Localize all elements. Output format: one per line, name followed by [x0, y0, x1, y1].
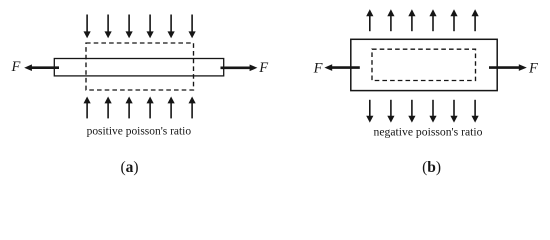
diagram (b): expansion up arrow 6 [472, 9, 479, 31]
diagram (a): compressive down arrow 4 [147, 15, 154, 39]
svg-text:(b): (b) [422, 159, 441, 176]
diagram (b): right tension force arrow [489, 64, 527, 71]
diagram (a): compressive down arrow 2 [105, 15, 112, 39]
svg-text:F: F [11, 59, 21, 75]
diagram (a): compressive down arrow 5 [168, 15, 175, 39]
diagram (b): expansion up arrow 1 [366, 9, 373, 31]
diagram (a): compressive down arrow 6 [189, 15, 196, 39]
diagram (a): right tension force arrow [221, 65, 258, 72]
diagram (a): compressive up arrow 1 [84, 97, 91, 119]
svg-text:F: F [528, 60, 538, 76]
diagram (b): expansion up arrow 2 [387, 9, 394, 31]
diagram (b): left tension force arrow [324, 64, 359, 71]
diagram (a): left tension force arrow [24, 64, 59, 71]
diagram (a): compressive down arrow 1 [84, 15, 91, 39]
diagram (b): expansion down arrow 5 [450, 100, 457, 123]
svg-text:F: F [258, 60, 268, 76]
svg-text:(a): (a) [120, 159, 138, 176]
svg-text:F: F [313, 60, 323, 76]
diagram (a): compressive up arrow 4 [147, 97, 154, 119]
diagram (b): expansion down arrow 4 [429, 100, 436, 123]
diagram (a): dashed deformed-region outline [86, 43, 194, 90]
diagram (a): solid material bar [54, 59, 223, 76]
diagram (b): expansion up arrow 3 [408, 9, 415, 31]
diagram (a): compressive down arrow 3 [126, 15, 133, 39]
diagram (b): expansion down arrow 1 [366, 100, 373, 123]
diagram (b): solid material box [351, 39, 497, 90]
diagram (b): expansion up arrow 5 [450, 9, 457, 31]
diagram (b): expansion down arrow 6 [472, 100, 479, 123]
diagram (b): expansion down arrow 3 [408, 100, 415, 123]
diagram (b): expansion up arrow 4 [429, 9, 436, 31]
svg-text:negative poisson's ratio: negative poisson's ratio [374, 125, 483, 139]
diagram (a): compressive up arrow 5 [168, 97, 175, 119]
diagram (b): dashed undeformed-region outline [372, 49, 476, 80]
diagram (a): compressive up arrow 2 [105, 97, 112, 119]
svg-text:positive poisson's ratio: positive poisson's ratio [87, 124, 192, 138]
diagram (a): compressive up arrow 6 [189, 97, 196, 119]
diagram (b): expansion down arrow 2 [387, 100, 394, 123]
diagram (a): compressive up arrow 3 [126, 97, 133, 119]
